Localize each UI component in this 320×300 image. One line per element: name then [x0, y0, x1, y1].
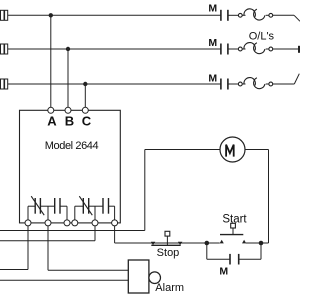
node tap A on line 1	[49, 13, 53, 17]
node after stop	[205, 241, 210, 246]
wire phase line 1	[8, 15, 300, 21]
svg-text:O/L's: O/L's	[249, 30, 275, 42]
overload heater OL3	[238, 78, 272, 89]
svg-text:A: A	[47, 113, 57, 128]
wire left edge to motor coil	[0, 150, 220, 231]
node before right rail	[259, 241, 264, 246]
svg-text:C: C	[82, 113, 92, 128]
contact M holding (seal-in)	[207, 243, 261, 265]
contact M1 on line 1	[221, 10, 228, 21]
fuse/terminal box L3	[1, 79, 8, 89]
enclosure Model 2644	[20, 110, 121, 223]
svg-text:Stop: Stop	[157, 247, 180, 259]
fuse/terminal box L1	[1, 10, 8, 20]
contact NO1 inside box	[48, 198, 67, 214]
svg-text:M: M	[208, 73, 217, 85]
wire tap A down to terminal A	[50, 15, 52, 107]
label M2	[208, 37, 217, 49]
terminal T1	[25, 220, 31, 226]
label A	[47, 113, 57, 128]
label C	[82, 113, 92, 128]
terminal T4	[72, 220, 78, 226]
svg-text:M: M	[208, 2, 217, 14]
contact M3 on line 3	[221, 79, 228, 90]
terminal A	[48, 107, 54, 113]
label M holding	[219, 266, 228, 278]
wire T6 to stop button	[115, 226, 207, 243]
wire phase line 3	[8, 74, 300, 84]
wire tap B down to terminal B	[67, 49, 69, 107]
wire T1 to left edge	[0, 226, 28, 270]
terminal T5	[92, 220, 98, 226]
label O/L's	[249, 30, 275, 42]
wire T5 to left edge	[0, 226, 95, 241]
contact NC2 inside box	[75, 196, 95, 215]
wire T2 to alarm	[48, 226, 128, 270]
svg-text:M: M	[219, 266, 228, 278]
overload heater OL1	[238, 9, 272, 20]
wire phase line 2	[8, 46, 299, 53]
label Stop	[157, 247, 180, 259]
node tap C on line 3	[83, 82, 87, 86]
svg-text:Model 2644: Model 2644	[45, 140, 99, 152]
contact NC1 inside box	[28, 196, 48, 215]
pushbutton Start (NO)	[207, 223, 246, 243]
alarm gong	[149, 272, 161, 284]
overload heater OL2	[238, 43, 272, 54]
label Model 2644	[45, 140, 99, 152]
motor M	[220, 137, 245, 162]
wire left edge to alarm lower	[0, 279, 128, 281]
label Alarm	[155, 282, 184, 294]
terminal C	[82, 107, 88, 113]
svg-text:M: M	[208, 37, 217, 49]
wire contact lead drops to bottom terminals	[28, 206, 115, 220]
pushbutton Stop (NC)	[151, 231, 183, 245]
contact M2 on line 2	[221, 44, 228, 55]
terminal T6	[112, 220, 118, 226]
fuse/terminal box L2	[1, 44, 8, 54]
svg-text:Alarm: Alarm	[155, 282, 184, 294]
label M1	[208, 2, 217, 14]
wire motor to right rail	[245, 150, 269, 244]
svg-text:B: B	[65, 113, 74, 128]
terminal B	[65, 107, 71, 113]
label B	[65, 113, 74, 128]
wire tap C down to terminal C	[84, 84, 86, 107]
terminal T3	[64, 220, 70, 226]
node tap B on line 2	[66, 47, 70, 51]
contact NO2 inside box	[95, 198, 115, 214]
terminal T2	[45, 220, 51, 226]
alarm bell box	[128, 260, 149, 293]
label motor M	[226, 145, 234, 157]
svg-text:Start: Start	[222, 214, 247, 226]
label M3	[208, 73, 217, 85]
label Start	[222, 214, 247, 226]
